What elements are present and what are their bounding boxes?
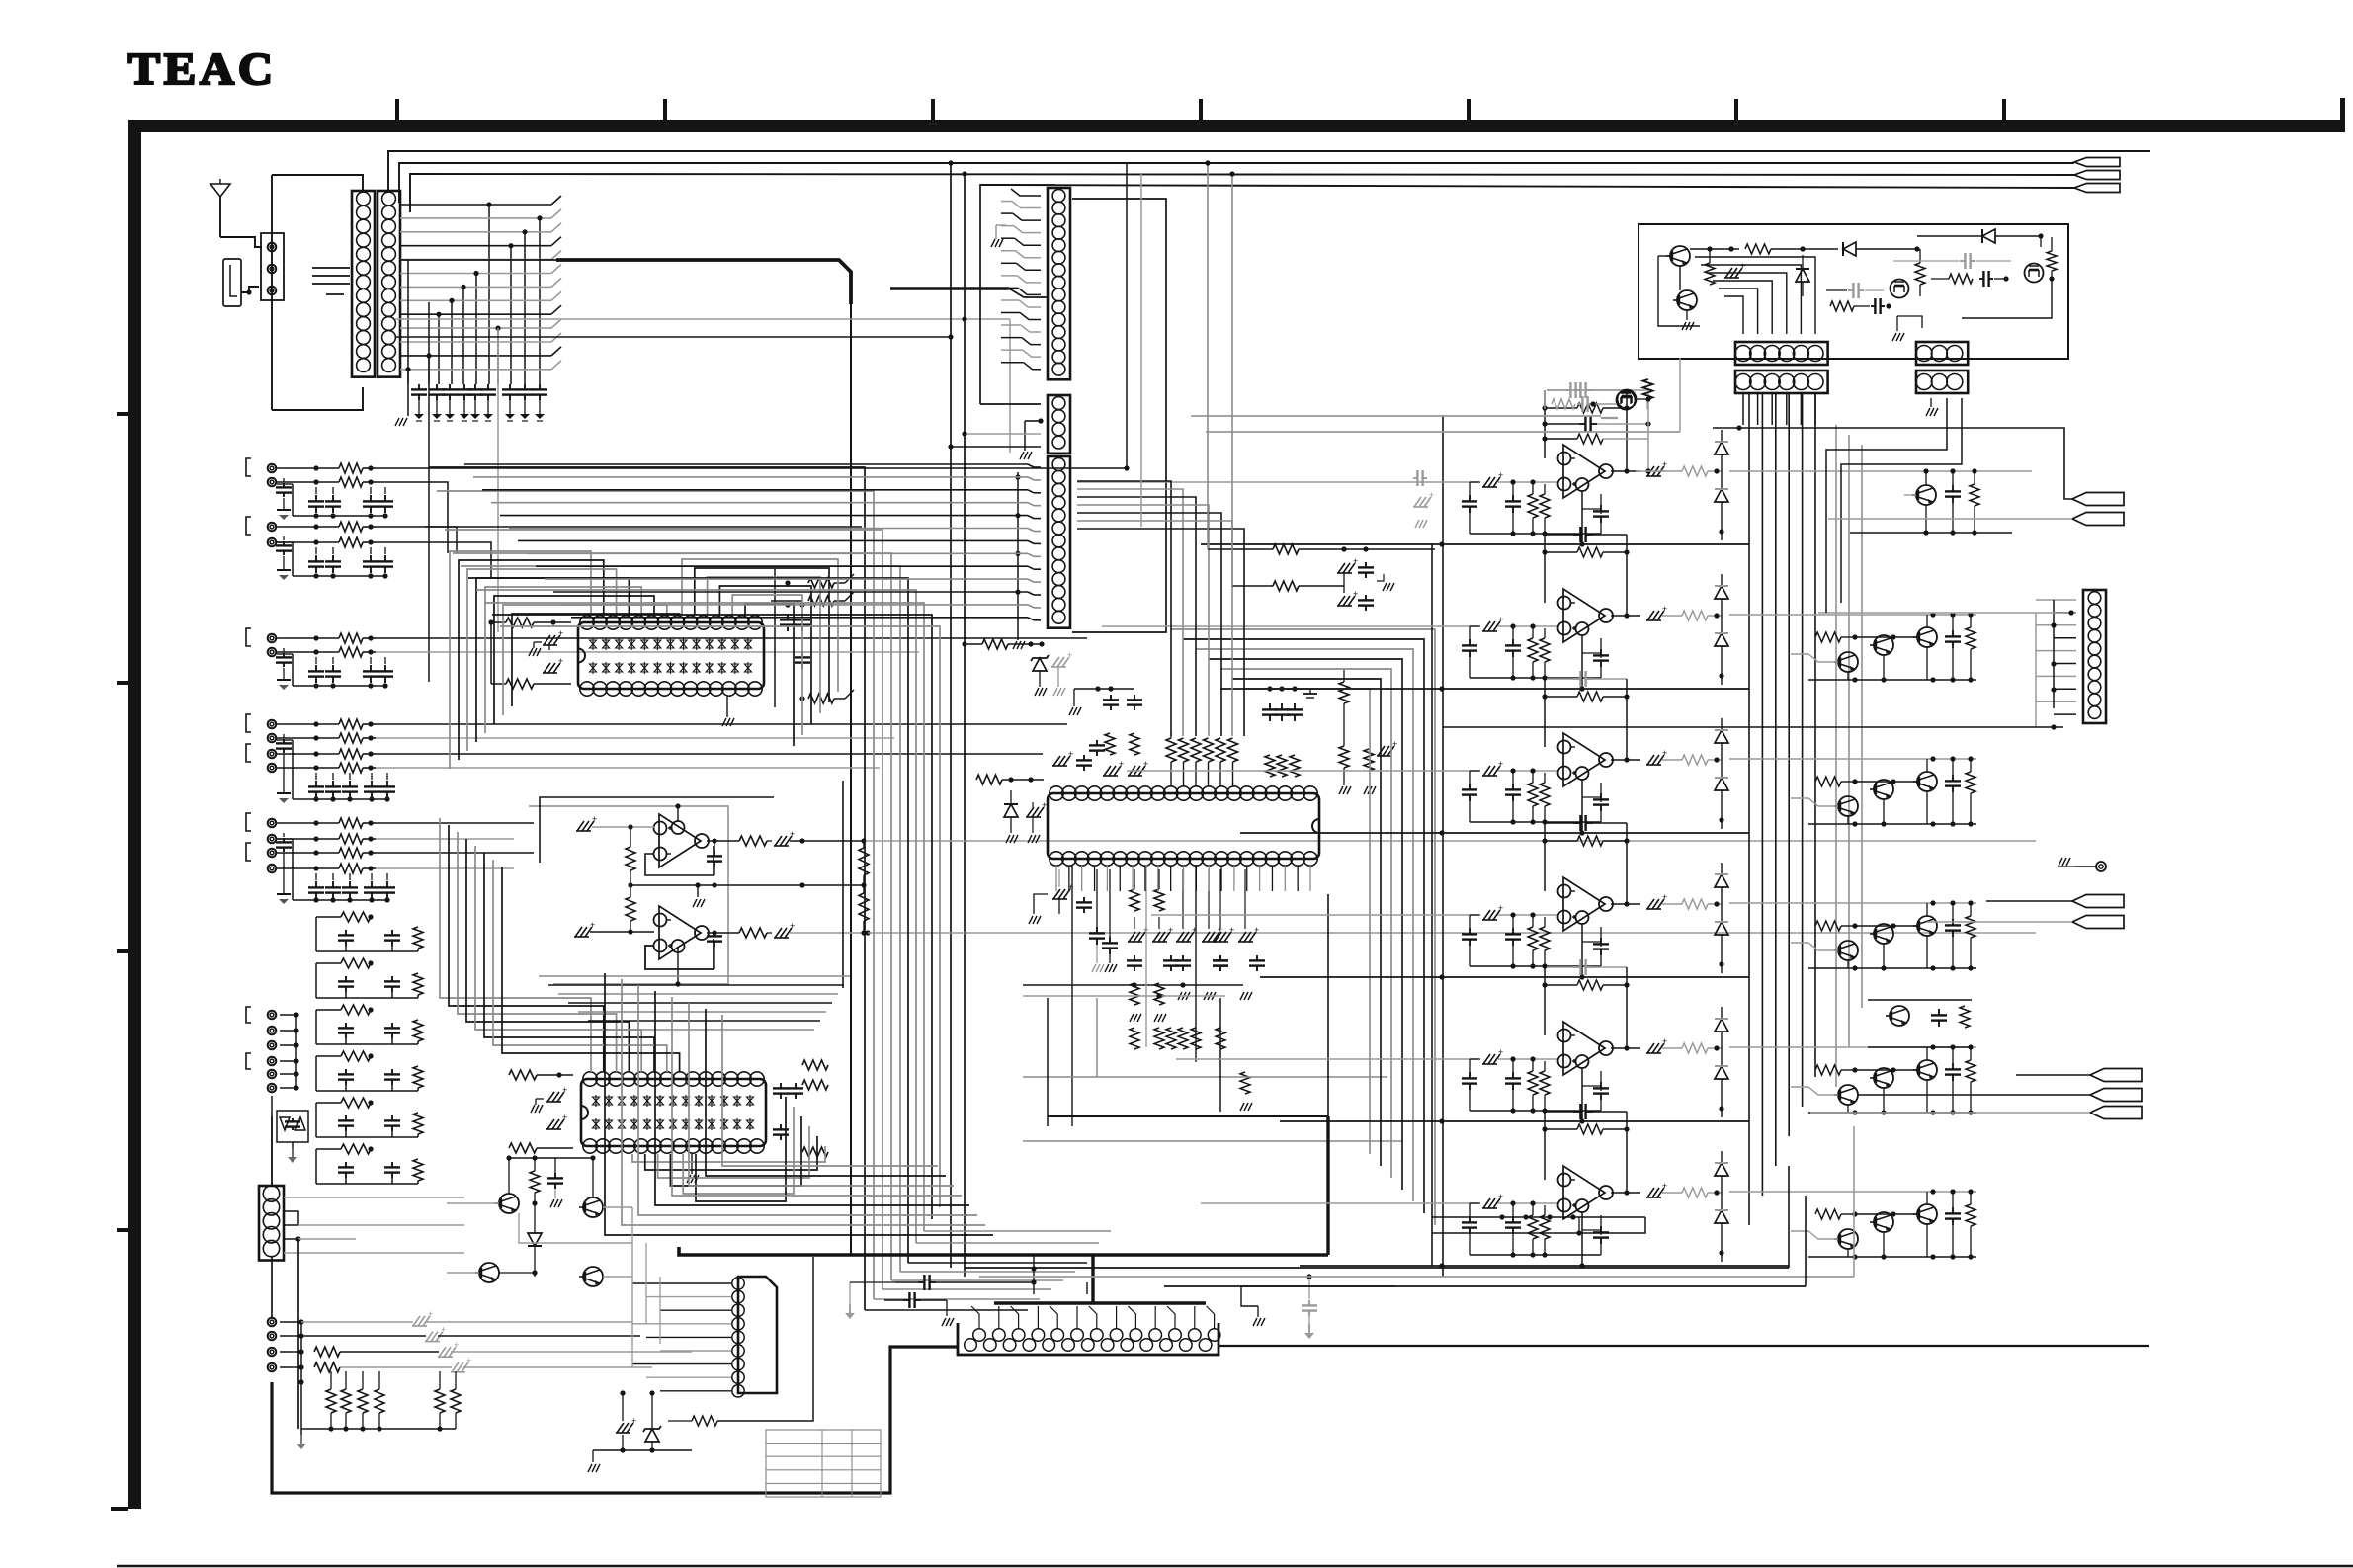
wire U4 bpin stub 8 bbox=[1144, 866, 1146, 891]
resistor R_U4t2 bbox=[1277, 755, 1287, 777]
wire cross to CN5 11 bbox=[553, 591, 1028, 593]
wire B out1 bbox=[376, 526, 862, 528]
wire lower loop 2 bbox=[622, 979, 985, 1225]
wire CN13 left bus bbox=[631, 1207, 633, 1367]
wire CN12 t5 bbox=[1050, 1306, 1057, 1329]
resistor R_r1 bbox=[1970, 484, 1979, 506]
wire center corner 2 bbox=[437, 491, 874, 1299]
resistor R_p5 bbox=[1949, 274, 1973, 284]
wire U7 gbus bbox=[1470, 821, 1601, 823]
diode D_U8b bbox=[1715, 922, 1728, 935]
wire G4 bbox=[280, 1366, 301, 1368]
frame tick left 1 bbox=[117, 412, 128, 416]
wire ch1 input bbox=[1077, 481, 1478, 483]
CN12 pin top 8 bbox=[1110, 1329, 1123, 1342]
wire RG4 leads bbox=[345, 1371, 347, 1389]
wire U4 bpin stub 4 bbox=[1094, 866, 1096, 891]
wire U4 looptop 3 bbox=[1196, 649, 1413, 1201]
ground C_b1 bbox=[849, 1282, 851, 1304]
wire right vbundle g2 bbox=[1848, 435, 1850, 1047]
svg-text:+: + bbox=[590, 920, 595, 930]
frame left border bbox=[128, 120, 141, 1509]
wire p4 down bbox=[1962, 279, 2052, 318]
wire center corner 3 tail bbox=[882, 1288, 1051, 1290]
wire F2 bbox=[280, 1030, 296, 1032]
resistor R_U43 bbox=[1191, 738, 1201, 762]
wire qc4 rail bbox=[1729, 1046, 1976, 1048]
wire bus A bbox=[292, 484, 294, 516]
capacitor CC3 bbox=[370, 665, 372, 671]
op-amp U6 bbox=[1563, 589, 1605, 642]
resistor R_U4b2 bbox=[1154, 889, 1164, 911]
capacitor C_ch1t2 bbox=[1577, 403, 1582, 405]
wire U1 hook 5 bbox=[485, 587, 641, 733]
wire U4 p1 bbox=[1134, 917, 1135, 929]
connector CN6 bbox=[259, 1186, 284, 1261]
wire vert 1140 bbox=[1126, 163, 1128, 468]
wire CN13 p9 bbox=[660, 1390, 731, 1392]
ground U1 bbox=[726, 697, 728, 717]
resistor RG4 bbox=[341, 1389, 351, 1413]
diode D_p2 bbox=[1796, 269, 1809, 282]
wire stair 1 bbox=[1077, 481, 1171, 736]
wire Qp join bbox=[1679, 266, 1681, 290]
wire U5 plus drop bbox=[1581, 491, 1583, 544]
resistor R_U4b3 bbox=[1130, 983, 1139, 1005]
U3 xsym top 2 bbox=[606, 1097, 613, 1105]
wire lower loop 6 bbox=[689, 1003, 954, 1186]
capacitor C_U3e bbox=[780, 1124, 782, 1129]
wire CN3 fan pin6 bbox=[1016, 251, 1042, 258]
resistor R_U51 bbox=[1528, 494, 1538, 518]
capacitor C_U3c bbox=[780, 1083, 782, 1088]
resistor RG8 bbox=[451, 1389, 461, 1413]
capacitor CD4 bbox=[371, 781, 373, 786]
ground under C16 bbox=[509, 400, 511, 414]
svg-text:+: + bbox=[1498, 903, 1503, 913]
connector arrow mid 1 bbox=[2072, 493, 2124, 506]
diode D_m1 bbox=[528, 1233, 542, 1246]
capacitor CC2 bbox=[332, 665, 334, 671]
wire U2B out bbox=[707, 932, 714, 934]
wire U8 dvert bbox=[1721, 863, 1723, 873]
hatch U2A in bbox=[577, 821, 584, 831]
U1 xsym bot 2 bbox=[603, 664, 610, 672]
jack D4 bbox=[268, 764, 277, 773]
svg-text:+: + bbox=[1143, 759, 1148, 769]
wire CN13 p6 bbox=[660, 1350, 731, 1352]
wire U5 in bbox=[1498, 481, 1557, 483]
connector arrow mid 4 bbox=[2072, 916, 2124, 929]
resistor R_mid2 bbox=[1273, 581, 1299, 591]
ground under C18 bbox=[539, 400, 541, 414]
wire U5 gbus bbox=[1470, 533, 1601, 535]
capacitor C_r1 bbox=[1952, 485, 1954, 491]
wire U4 bpin stub 6 bbox=[1119, 866, 1121, 891]
wire p top bbox=[1690, 248, 1739, 250]
hatch mid 1 bbox=[1338, 563, 1345, 573]
capacitor C_U3d bbox=[795, 1083, 797, 1088]
resistor R_m1 bbox=[530, 1171, 540, 1193]
wire CN3 fan pin15 bbox=[1024, 363, 1041, 370]
hatch U6i bbox=[1483, 621, 1490, 631]
wire CN8 pin2 up bbox=[1719, 289, 1758, 334]
frame tick left 2 bbox=[117, 681, 128, 685]
wire CN7 pin8 bbox=[2054, 688, 2076, 690]
U1 xsym bot 10 bbox=[706, 664, 713, 672]
antenna ANT1 bbox=[210, 184, 230, 197]
wire U4 long2 bbox=[1023, 995, 1225, 997]
hatch U4r bbox=[1378, 746, 1385, 756]
wire CN2 fan 5 bbox=[400, 259, 551, 261]
polar cap CG3 bbox=[439, 1347, 446, 1357]
capacitor C_b2 bbox=[903, 1299, 909, 1301]
jack F5 bbox=[268, 1070, 277, 1079]
resistor RA1 bbox=[339, 463, 363, 473]
ground CN3 fan bbox=[991, 239, 995, 247]
resistor RD1 bbox=[339, 719, 363, 729]
wire U4 res feed bbox=[1170, 733, 1172, 738]
wire U4 bdrop3 bbox=[1195, 865, 1197, 1062]
wire U4 bpin stub 13 bbox=[1208, 866, 1210, 891]
U3 xsym bot 1 bbox=[593, 1120, 600, 1128]
hatch U6o bbox=[1647, 611, 1654, 620]
capacitor CEp bbox=[283, 838, 285, 842]
wire qc2 q1d bbox=[1847, 816, 1849, 824]
U1 xsym top 4 bbox=[629, 640, 635, 648]
U3 xsym bot 2 bbox=[606, 1120, 613, 1128]
wire cross to CN5 5 bbox=[500, 515, 1028, 517]
wire stair 7 bbox=[1077, 529, 1244, 736]
connector CN10 bbox=[1735, 371, 1828, 393]
connector CN13 D bbox=[738, 1277, 777, 1393]
wire CN3 fan pin11 bbox=[1020, 313, 1041, 320]
wire p right bbox=[2040, 236, 2042, 247]
wire U2 vert bbox=[842, 781, 844, 988]
ground CN4 bbox=[1024, 421, 1026, 451]
frame tick top 6 bbox=[1734, 99, 1738, 120]
wire U3 hookb 4 bbox=[670, 1116, 801, 1186]
wire CN2 fan 6 bbox=[400, 273, 551, 275]
wire right vbundle 4 bbox=[1788, 392, 1790, 1136]
wire r1 bot rail bbox=[1850, 532, 2012, 534]
wire center corner 7 tail bbox=[916, 1242, 1099, 1244]
wire CN2 fan 10 bbox=[400, 327, 551, 329]
hatch U9o bbox=[1647, 1043, 1654, 1053]
capacitor C_U53 bbox=[1600, 505, 1602, 511]
CN12 pin top 4 bbox=[1032, 1329, 1045, 1342]
CN12 pin top 12 bbox=[1189, 1329, 1202, 1342]
svg-text:+: + bbox=[1662, 748, 1667, 758]
wire CN2 fan 7 bbox=[400, 286, 551, 288]
resistor R_ch1t bbox=[1552, 399, 1575, 409]
capacitor CB4 bbox=[384, 555, 386, 561]
polar cap CG2 bbox=[426, 1332, 433, 1342]
frame tick left 4 bbox=[117, 1228, 128, 1232]
svg-text:+: + bbox=[1662, 892, 1667, 902]
CN13 pin 4 bbox=[732, 1318, 744, 1330]
wire U5 out bbox=[1662, 470, 1682, 472]
hatch U4 p2 bbox=[1153, 932, 1160, 942]
resistor R_U91 bbox=[1528, 1071, 1538, 1095]
wire cross to CN5 3 bbox=[482, 489, 1028, 491]
resistor RC2 bbox=[339, 647, 363, 657]
wire right vbundle g1 bbox=[1835, 425, 1837, 1087]
wire F rung 2 bbox=[316, 1055, 341, 1057]
U1 xsym top 9 bbox=[693, 640, 700, 648]
resistor R_U1b bbox=[506, 679, 534, 689]
wire center corner 3 bbox=[445, 530, 882, 1289]
wire qc2 b bbox=[1855, 781, 1917, 783]
capacitor CF2b bbox=[391, 1069, 393, 1074]
wire lower loop 5 bbox=[672, 997, 962, 1196]
U1 xsym bot 7 bbox=[667, 664, 674, 672]
capacitor C_U1a bbox=[544, 635, 550, 645]
bracket Eb bbox=[246, 843, 251, 861]
U1 xsym bot 5 bbox=[641, 664, 648, 672]
resistor R_U71 bbox=[1528, 783, 1538, 806]
wire CN2 fan 12 bbox=[400, 355, 551, 357]
wire CN7 pin4 bbox=[2054, 637, 2076, 639]
svg-text:+: + bbox=[1254, 925, 1259, 935]
zener ZD1 bbox=[1033, 658, 1047, 671]
wire B1 bbox=[277, 526, 339, 528]
wire center corner 8 tail bbox=[924, 1230, 1111, 1232]
wire U4 p4 bbox=[1208, 869, 1210, 929]
wire RG5 leads bbox=[362, 1371, 364, 1389]
wire CN3 fan pin7 bbox=[1016, 263, 1041, 270]
frame tick top 1 bbox=[395, 99, 399, 120]
wire CN2 fan 1 bbox=[400, 204, 551, 206]
U1 xsym bot 9 bbox=[693, 664, 700, 672]
hatch U10i bbox=[1483, 1198, 1490, 1208]
hatch U8o bbox=[1647, 899, 1654, 909]
wire D4 bbox=[277, 767, 339, 769]
capacitor C_U4g bbox=[1294, 703, 1296, 709]
U3 xsym top 11 bbox=[721, 1097, 728, 1105]
wire qc4 q1d bbox=[1847, 1105, 1849, 1113]
capacitor C_U4p1 bbox=[1134, 955, 1135, 960]
junction CN5 spine 3 bbox=[1015, 551, 1020, 556]
capacitor C_U72 bbox=[1512, 784, 1514, 789]
connector arrow low 2 bbox=[2090, 1089, 2142, 1102]
diode D_U6b bbox=[1715, 633, 1728, 646]
connector CN5 bbox=[1048, 456, 1070, 628]
wire jack loop bbox=[271, 175, 273, 410]
wire ch1 vr bbox=[1647, 390, 1649, 471]
wire U2 top black bbox=[540, 797, 774, 863]
svg-text:+: + bbox=[1042, 800, 1047, 810]
wire A out1 bbox=[376, 467, 1127, 469]
wire vbus 1449 bbox=[1431, 544, 1433, 1266]
wire CN7 pin10 bbox=[2054, 713, 2076, 715]
svg-text:+: + bbox=[1740, 261, 1745, 271]
resistor R_U5o bbox=[1682, 466, 1708, 476]
U1 xsym top 2 bbox=[603, 640, 610, 648]
wire U4 trio line bbox=[1265, 688, 1301, 690]
ground U4 capline bbox=[1073, 689, 1075, 706]
wire U4 looptop 2 bbox=[1184, 639, 1425, 1213]
U3 xsym bot 11 bbox=[721, 1120, 728, 1128]
wire ch6 rail bbox=[1300, 1265, 1789, 1267]
U1 xsym bot 4 bbox=[629, 664, 635, 672]
wire ch1 topnet bbox=[1544, 390, 1546, 409]
connector CN8 bbox=[1735, 342, 1828, 365]
resistor R_U4b4 bbox=[1154, 983, 1164, 1005]
wire CN3 fan pin2 bbox=[1012, 202, 1041, 208]
wire qc4 bot bbox=[1808, 1112, 1976, 1114]
transistor Q_p1 bbox=[1670, 246, 1690, 266]
capacitor C_U83 bbox=[1600, 938, 1602, 944]
CN13 pin 6 bbox=[732, 1345, 744, 1357]
connector CN11 bbox=[1916, 371, 1968, 393]
svg-text:+: + bbox=[1498, 1047, 1503, 1057]
wire CN5 spine bbox=[1017, 472, 1019, 622]
ground G bbox=[300, 1429, 302, 1435]
svg-text:+: + bbox=[1662, 604, 1667, 614]
resistor RE1 bbox=[339, 818, 363, 828]
wire U3 hook 5 bbox=[475, 846, 641, 1072]
wire G gnd bus bbox=[300, 1382, 302, 1429]
wire CN3 feed pin5 bbox=[1001, 237, 1015, 239]
wire U6 out bbox=[1662, 615, 1682, 617]
resistor R_U82 bbox=[1540, 927, 1550, 950]
resistor RF0 bbox=[341, 958, 371, 968]
hatch U2B out bbox=[775, 928, 782, 938]
box U2 gray bbox=[529, 806, 728, 984]
wire U1 left bbox=[490, 622, 492, 684]
U1 xsym bot 1 bbox=[590, 664, 597, 672]
hatch U4b bbox=[1129, 766, 1135, 776]
ground C_U3 bbox=[531, 1105, 535, 1113]
wire top bus 3 bbox=[410, 174, 2074, 212]
capacitor CE1 bbox=[315, 881, 317, 887]
wire G out3 bbox=[340, 1351, 439, 1353]
jack F4 bbox=[268, 1057, 277, 1066]
ground D bbox=[283, 754, 285, 793]
wire U1 hook 8 bbox=[512, 614, 680, 706]
wire C1 bbox=[277, 637, 339, 639]
U3 xsym bot 12 bbox=[734, 1120, 741, 1128]
svg-text:+: + bbox=[1067, 650, 1072, 660]
wire U8 railL bbox=[1544, 823, 1546, 891]
wire center corner 1 tail bbox=[865, 1309, 1028, 1311]
svg-text:+: + bbox=[1353, 556, 1358, 566]
wire F6 bbox=[280, 1087, 296, 1089]
wire CN6 p4 bbox=[284, 1238, 298, 1240]
svg-text:+: + bbox=[1168, 925, 1173, 935]
wire psu bottom loop1 bbox=[1432, 1216, 1645, 1218]
transistor Q4c bbox=[1917, 1060, 1937, 1080]
wire U4 bpin stub 11 bbox=[1183, 866, 1185, 891]
wire U7 plus drop bbox=[1581, 780, 1583, 833]
transistor Q_m3 bbox=[583, 1197, 603, 1217]
ground C_U1a bbox=[548, 645, 550, 650]
hatch U5i bbox=[1483, 477, 1490, 487]
hatch ZD1c bbox=[1052, 657, 1059, 667]
resistor R_U3a bbox=[509, 1070, 537, 1080]
resistor R_U10f bbox=[1577, 1124, 1603, 1134]
capacitor C_p1 bbox=[1848, 289, 1853, 291]
wire qc4 base in bbox=[1791, 1087, 1838, 1095]
wire B out3 bbox=[425, 527, 457, 553]
hatch U4 p5 bbox=[1215, 932, 1221, 942]
svg-text:+: + bbox=[562, 1113, 567, 1122]
wire CN3 feed pin12 bbox=[1001, 324, 1021, 326]
ground U4 b3 bbox=[1204, 992, 1208, 1000]
resistor RG3 bbox=[326, 1389, 336, 1413]
resistor R_U2c bbox=[739, 836, 767, 846]
resistor R_qc1v bbox=[1966, 627, 1975, 649]
wire U7 railR bbox=[1626, 679, 1628, 760]
capacitor C_U63 bbox=[1600, 649, 1602, 655]
svg-text:+: + bbox=[1498, 470, 1503, 480]
wire U5 railL bbox=[1544, 390, 1546, 458]
wire U4 bpin stub 18 bbox=[1271, 866, 1273, 891]
wire U4 bpin stub 19 bbox=[1284, 866, 1286, 891]
wire E1 bbox=[277, 822, 339, 824]
ground U4 b1 bbox=[1034, 894, 1048, 914]
wire CN6 stem top bbox=[271, 1116, 273, 1186]
wire CN7 pin2 bbox=[2054, 612, 2076, 614]
capacitor CF1b bbox=[391, 1023, 393, 1028]
ground under C17 bbox=[524, 400, 526, 414]
wire U4 low h2 bbox=[1048, 1115, 1328, 1117]
wire CN10 pin5 dn bbox=[1800, 393, 1802, 425]
U1 xsym top 8 bbox=[680, 640, 687, 648]
wire qc5 bot bbox=[1808, 1256, 1976, 1258]
wire thick W2 bbox=[890, 287, 1009, 290]
wire CN3 fan pin5 bbox=[1015, 238, 1041, 245]
wire U1 hookr 4 bbox=[719, 586, 811, 724]
wire m q1 base bbox=[447, 1202, 499, 1204]
capacitor CF-1a bbox=[345, 930, 347, 935]
transistor Q_p3 fet bbox=[1891, 280, 1909, 298]
svg-text:+: + bbox=[1662, 1036, 1667, 1046]
wire U10 in bbox=[1498, 1202, 1557, 1204]
wire D out3 bbox=[376, 753, 1043, 755]
wire CN2 fan 11 bbox=[400, 341, 551, 343]
resistor R_U3c bbox=[802, 1060, 828, 1070]
wire F5 bbox=[280, 1073, 296, 1075]
wire U1 hook 2 bbox=[459, 560, 604, 760]
wire cross to CN5 8 bbox=[527, 552, 1028, 554]
capacitor C_U2a bbox=[714, 851, 715, 856]
capacitor C_U4p4 bbox=[1219, 955, 1221, 960]
jack D1 bbox=[268, 720, 277, 729]
junction U2B bot bbox=[677, 947, 679, 984]
resistor R_U10o bbox=[1682, 1188, 1708, 1197]
wire right vbundle g3 bbox=[1861, 445, 1863, 1008]
capacitor CD2 bbox=[332, 781, 334, 786]
resistor R_qc3 bbox=[1815, 921, 1841, 931]
capacitor C_qc5 bbox=[1952, 1207, 1954, 1213]
wire center corner 6 tail bbox=[908, 1262, 1087, 1264]
wire lower loop 3 bbox=[638, 985, 977, 1215]
CN12 pin bot 2 bbox=[984, 1339, 997, 1352]
hatch U4a bbox=[1104, 766, 1111, 776]
jack G3 bbox=[268, 1348, 277, 1357]
wire U4 bpin stub 10 bbox=[1170, 866, 1172, 891]
hatch U4d bbox=[1027, 807, 1034, 817]
capacitor CF1a bbox=[345, 1023, 347, 1028]
ground B bbox=[283, 556, 285, 570]
U1 xsym top 6 bbox=[654, 640, 661, 648]
wire qc2 base in bbox=[1791, 798, 1838, 806]
transistor Q_m4 bbox=[583, 1267, 603, 1286]
wire psu bottom loop2 bbox=[1432, 1217, 1645, 1233]
CN12 pin top 6 bbox=[1071, 1329, 1084, 1342]
